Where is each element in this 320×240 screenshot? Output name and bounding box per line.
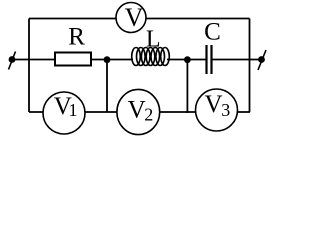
svg-text:3: 3: [221, 100, 230, 120]
svg-text:C: C: [204, 19, 221, 46]
svg-text:V: V: [204, 91, 222, 118]
svg-text:V: V: [128, 96, 146, 123]
svg-text:R: R: [68, 24, 85, 51]
svg-text:L: L: [146, 26, 161, 52]
svg-text:1: 1: [69, 100, 78, 120]
svg-text:V: V: [125, 3, 144, 32]
svg-text:2: 2: [144, 105, 153, 125]
